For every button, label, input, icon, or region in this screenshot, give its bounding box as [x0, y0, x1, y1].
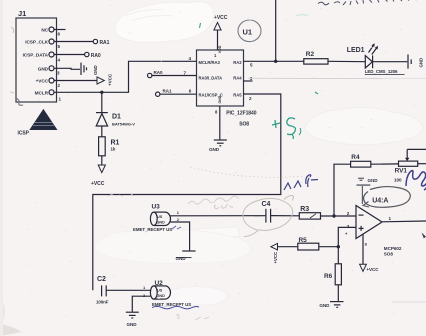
edge shade (left) [0, 0, 3, 336]
white-out patch (right of U3) [197, 227, 240, 239]
svg-text:+VCC: +VCC [366, 267, 379, 272]
resistor R3 [299, 206, 320, 219]
wire R5 to node [319, 246, 339, 248]
blue pen handwriting (top right) [318, 0, 417, 5]
pencil mark (left margin top) [11, 27, 14, 33]
svg-text:RA0: RA0 [154, 70, 164, 75]
corner smudge (bottom left) [0, 324, 22, 336]
svg-text:GND: GND [93, 65, 98, 75]
wire U1 pin 2 net (to transducers) [93, 94, 281, 290]
svg-text:J1: J1 [18, 9, 26, 18]
svg-text:R4: R4 [351, 154, 360, 161]
pin 2 +VCC [36, 78, 97, 88]
green smudge (top) [296, 15, 308, 17]
svg-text:GND: GND [218, 95, 222, 103]
blue wavy underline (U2 label) [152, 306, 199, 309]
blue tick (U3 label end) [172, 226, 181, 229]
svg-text:MCLR: MCLR [35, 90, 49, 95]
ground (U3) [176, 251, 196, 261]
pencil dot (near pin 3) [345, 233, 347, 235]
svg-text:R6: R6 [324, 273, 333, 280]
wire MCLR to D1 [101, 92, 103, 112]
connector J1 [16, 9, 57, 102]
power +VCC arrow (J1 pin 2) [97, 73, 113, 86]
svg-text:+VCC: +VCC [91, 181, 105, 187]
ground (op-amp bias) [357, 178, 379, 204]
transducer U3 EMET_RECEPT US [133, 204, 172, 233]
svg-text:100nF: 100nF [96, 300, 109, 305]
wire feedback riser [334, 164, 351, 216]
svg-text:GND: GND [38, 66, 49, 71]
IC U1 PIC_12F1840 [197, 45, 257, 127]
pin labels U3 [177, 210, 180, 222]
white-out cloud (centre bottom) [95, 230, 251, 264]
faint smudge (bottom right) [392, 301, 426, 303]
wire R2 to LED1 [328, 60, 365, 62]
arrow mark (right edge) [422, 232, 426, 238]
white-out cloud (U2 label area) [161, 287, 227, 306]
svg-text:VDD: VDD [218, 45, 222, 53]
mark below J1 (pencil) [16, 98, 23, 105]
junction (RA2 net) [274, 60, 277, 63]
logo ICSP triangle [18, 109, 58, 137]
pin 1 MCLR [35, 90, 62, 102]
svg-text:LED_CMS_1206: LED_CMS_1206 [365, 69, 398, 74]
svg-text:US: US [157, 215, 163, 219]
resistor R4 [351, 154, 371, 167]
svg-text:+VCC: +VCC [214, 15, 228, 21]
pin 5 ICSP_CLK [25, 39, 93, 49]
power +VCC arrow (above U1) [214, 15, 228, 58]
svg-text:GND: GND [419, 58, 424, 68]
svg-text:BAT54WG-V: BAT54WG-V [112, 122, 135, 127]
svg-text:RA1: RA1 [163, 88, 173, 93]
svg-text:PIC_12F1840: PIC_12F1840 [226, 111, 257, 117]
capacitor C4 [262, 201, 271, 223]
svg-text:MCP602: MCP602 [384, 246, 402, 251]
pin labels U2 [143, 285, 146, 298]
svg-text:RA0/I_DATA: RA0/I_DATA [199, 76, 223, 81]
green marks (left of white cloud) [272, 118, 301, 139]
svg-text:D1: D1 [112, 114, 121, 121]
svg-text:RA1: RA1 [100, 40, 110, 46]
node RA0 (at U1 pin 7) [148, 70, 197, 78]
svg-text:GND: GND [209, 147, 220, 152]
svg-text:RA5: RA5 [233, 92, 242, 97]
resistor R1 1k [99, 137, 120, 165]
svg-text:RA0: RA0 [91, 53, 101, 59]
svg-text:SO8: SO8 [239, 122, 249, 128]
potentiometer RV1 100 [394, 149, 426, 182]
capacitor C2 100nF [96, 276, 109, 305]
wire C4 to R3 [271, 215, 300, 217]
pencil marks above box wire [108, 194, 134, 196]
resistor R2 [304, 51, 328, 64]
power +VCC arrow (left of R5) [271, 243, 278, 263]
wire U2 pin 2 to ground [132, 296, 150, 311]
svg-text:R1: R1 [111, 140, 120, 147]
svg-text:1k: 1k [111, 147, 116, 152]
green speck (near pin3) [315, 92, 318, 94]
junction (MCLR / D1) [100, 91, 103, 94]
diode D1 BAT54WG-V [96, 113, 135, 137]
pencil dotted arc [190, 167, 305, 177]
wire from top edge [275, 0, 277, 61]
pencil ellipse around C4 [243, 196, 294, 237]
svg-text:GND: GND [127, 322, 138, 327]
wire C2 to U2 pin 1 [106, 289, 151, 291]
svg-text:NC: NC [41, 28, 48, 33]
svg-text:100: 100 [394, 177, 402, 182]
node RA1 (at U1 pin 6) [156, 88, 197, 96]
svg-text:RV1: RV1 [395, 168, 408, 175]
hand ellipse around U4:A [363, 187, 410, 208]
node RA1 (at J1) [93, 39, 109, 46]
svg-text:+VCC: +VCC [273, 251, 278, 264]
svg-text:U1: U1 [243, 28, 253, 37]
svg-text:ICSP: ICSP [18, 131, 30, 137]
wire U1 pin 8 to ground [215, 106, 220, 140]
ground (R6) [319, 302, 343, 309]
svg-text:GND: GND [157, 294, 166, 298]
svg-text:R5: R5 [299, 237, 308, 244]
ground (J1 pin 3) [81, 63, 98, 75]
svg-text:+VCC: +VCC [108, 73, 113, 86]
svg-text:C4: C4 [262, 201, 271, 208]
svg-text:SO8: SO8 [384, 251, 394, 256]
faint pencil letters (bottom) [176, 315, 209, 321]
pin 6 NC [41, 27, 65, 37]
resistor R6 [324, 247, 341, 301]
pencil letters (eua) [214, 204, 233, 209]
svg-text:LED1: LED1 [347, 47, 365, 54]
wire R4 to RV1 [371, 163, 399, 165]
svg-text:U3: U3 [152, 204, 161, 211]
ground (LED1, rotated) [408, 54, 424, 68]
svg-text:+VCC: +VCC [36, 79, 49, 84]
ground (U2) [126, 312, 139, 327]
svg-text:MCLR/RA3: MCLR/RA3 [199, 60, 221, 65]
LED LED1 LED_CMS_1206 [347, 43, 405, 74]
wire RA2 net (U1 pin 5 to R2) [244, 61, 304, 67]
white-out cloud (right middle) [305, 107, 422, 145]
designator U1 [238, 20, 261, 42]
pin 4 ICSP_DATA [23, 52, 85, 63]
junction (R5/R6/pin3) [337, 245, 340, 248]
wire U3 pin 2 to ground [171, 222, 190, 250]
junction (R3/R4 node) [332, 214, 335, 217]
wire +VCC to R5 [278, 246, 298, 248]
pencil mark (left margin) [10, 92, 14, 93]
scan streak line [248, 77, 426, 79]
svg-text:R2: R2 [306, 51, 315, 58]
svg-text:GND: GND [176, 256, 187, 261]
svg-text:RA4: RA4 [233, 76, 242, 81]
pencil word (reception) [188, 196, 239, 204]
svg-text:RA2: RA2 [233, 60, 242, 65]
cloud inner streaks [125, 10, 173, 21]
svg-text:ICSP_CLK: ICSP_CLK [25, 40, 48, 45]
transducer U2 EMET_RECEPT US [150, 280, 191, 307]
svg-text:US: US [157, 289, 163, 293]
wire MCLR net [54, 61, 197, 92]
wire op-amp pin 3 [338, 227, 356, 246]
svg-text:GND: GND [157, 220, 166, 224]
power +VCC arrow (below R1) [91, 165, 105, 187]
svg-text:C2: C2 [97, 276, 106, 283]
pin 3 GND [38, 66, 80, 76]
pin 3 stub (U1 right) [244, 76, 253, 81]
svg-text:ICSP_DATA: ICSP_DATA [23, 53, 49, 58]
white-out cloud (top centre) [115, 2, 214, 43]
ground (U1) [209, 140, 227, 152]
wire LED1 to ground [373, 61, 408, 63]
resistor R5 [298, 237, 319, 250]
wire R3 to op-amp inverting input [321, 215, 357, 217]
blue pen mark (beside RV1) [406, 171, 426, 191]
node RA0 (at J1) [85, 52, 101, 59]
blue pen mark (caret scribble) [284, 175, 318, 190]
svg-text:U4:A: U4:A [372, 197, 388, 204]
wire U3 pin 1 to C4 [171, 215, 266, 217]
svg-text:R3: R3 [300, 206, 309, 213]
op-amp U4:A MCP602 [356, 197, 402, 256]
wire op-amp output pin 1 [382, 216, 426, 222]
green dash (in cloud) [200, 23, 201, 28]
wire op-amp V+ pin 8 [363, 234, 368, 265]
svg-text:EMET_RECEPT US: EMET_RECEPT US [133, 227, 172, 232]
power +VCC arrow (op-amp supply, down) [360, 264, 380, 272]
